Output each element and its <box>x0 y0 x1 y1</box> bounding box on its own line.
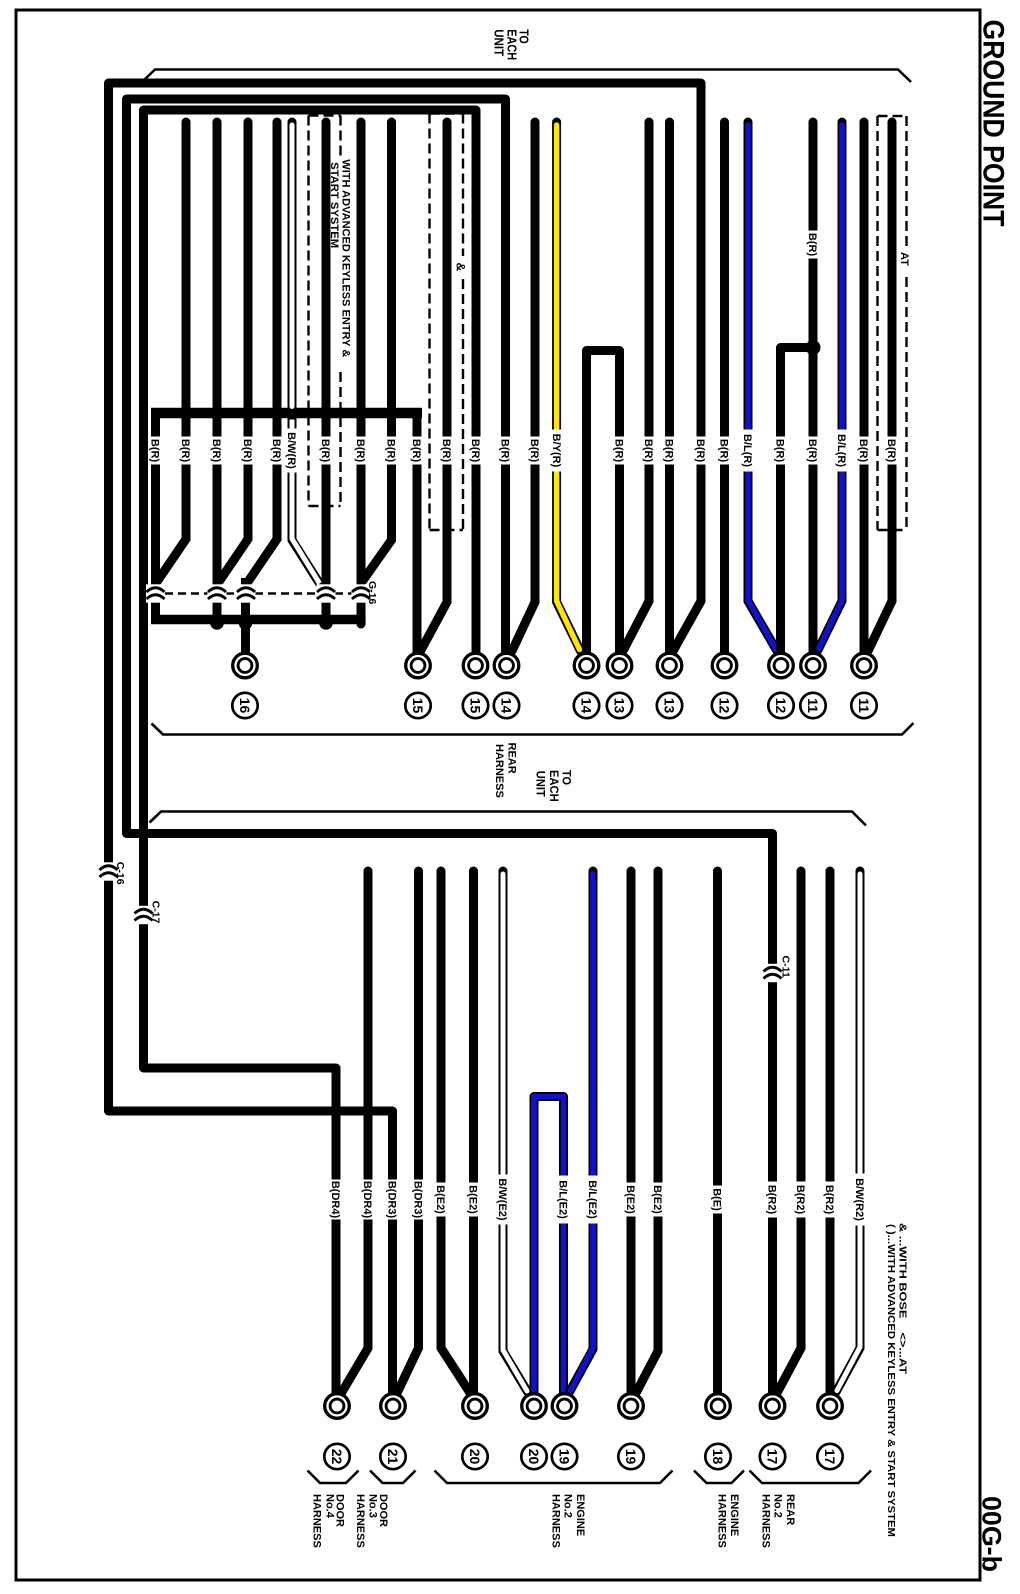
svg-text:B(DR4): B(DR4) <box>361 1181 373 1219</box>
in-line connector C-11 break <box>763 964 782 982</box>
wire B(R2) w801 diag to circle 17a <box>778 871 802 1392</box>
bracket ENGINE HARNESS <box>694 1471 744 1484</box>
svg-text:B(R): B(R) <box>499 439 511 463</box>
ground point circle 16 at x=245 <box>233 653 258 678</box>
wire L1 B(R) loop: circle13b-top-left-down-to-B(DR3) circle 21 <box>109 83 702 1398</box>
connector G-16 break at x=246 <box>237 584 256 602</box>
ground number circle 17 <box>760 1444 785 1469</box>
ground number circle 20 <box>521 1444 546 1469</box>
svg-text:HARNESS: HARNESS <box>549 1494 561 1548</box>
ground number circle 22 <box>324 1444 349 1469</box>
svg-text:B(R): B(R) <box>385 439 397 463</box>
wire B(DR3) w418 diag to circle 21 <box>398 871 419 1392</box>
wire B(R) w813 to circle 11a <box>809 122 818 658</box>
svg-text:B(R): B(R) <box>440 439 452 463</box>
svg-text:B(R): B(R) <box>806 233 818 257</box>
ground point circle 19 at x=564.5 <box>552 1394 577 1419</box>
bracket TO EACH UNIT (section 2 top) <box>150 812 867 826</box>
inline label B(R) on w813 <box>806 231 819 259</box>
svg-text:B(R): B(R) <box>528 439 540 463</box>
label REAR HARNESS <box>493 743 518 798</box>
svg-text:EACH: EACH <box>547 770 559 802</box>
wire B(R) w217 <box>213 122 222 620</box>
svg-text:12: 12 <box>773 698 789 714</box>
wire B(E2) w441 diag to circle 20a <box>441 871 470 1392</box>
wire B(R) w864 to circle 11b <box>860 122 869 658</box>
svg-text:GROUND POINT: GROUND POINT <box>977 20 1010 227</box>
wire B(R) w186 <box>158 122 187 581</box>
label ENGINE No.2 HARNESS <box>549 1494 586 1548</box>
wire B(E2) w658 diag to circle 19b <box>637 871 659 1392</box>
svg-text:13: 13 <box>611 698 627 714</box>
ground number circle 16 <box>232 693 257 718</box>
label DOOR No.4 HARNESS <box>311 1494 346 1548</box>
svg-text:16: 16 <box>237 698 253 714</box>
svg-text:19: 19 <box>556 1449 572 1465</box>
svg-text:20: 20 <box>526 1449 542 1465</box>
connector G-16 break at x=326 <box>317 584 336 602</box>
svg-text:B(R): B(R) <box>774 439 786 463</box>
junction dot w813 branch <box>806 340 821 355</box>
wire B(R) w417 bus1 right corner to circle 15a <box>413 413 422 658</box>
svg-text:B(R): B(R) <box>806 439 818 463</box>
note WITH BOSE / AT <box>897 1223 909 1375</box>
svg-text:HARNESS: HARNESS <box>759 1494 771 1548</box>
wire B/W(R2) white w860 diag to circle 17b <box>836 871 860 1392</box>
ground number circle 12 <box>768 693 793 718</box>
wire labels section 2 <box>329 1174 866 1226</box>
wire B(E2) w631 to circle 19b <box>627 871 636 1398</box>
label AT <box>898 252 910 266</box>
ground number circle 20 <box>462 1444 487 1469</box>
dashed box & <box>430 114 464 531</box>
svg-text:B(E): B(E) <box>711 1188 723 1211</box>
wire B(R) w361 <box>357 122 366 624</box>
dashed box AT <box>878 116 907 530</box>
ground point circle 13 at x=669.5 <box>657 653 682 678</box>
svg-text:B(R): B(R) <box>210 439 222 463</box>
svg-text:WITH ADVANCED KEYLESS ENTRY &: WITH ADVANCED KEYLESS ENTRY & <box>340 159 352 357</box>
wire B/L(E2) blue U-loop circle20b to circle19a <box>534 1097 564 1399</box>
in-line connector G-16 dashed row <box>165 592 352 594</box>
svg-text:ENGINE: ENGINE <box>574 1494 586 1536</box>
ground point circle 21 at x=393 <box>381 1394 406 1419</box>
ground point circle 17 at x=830 <box>818 1394 843 1419</box>
svg-text:& ...WITH BOSE <>...AT: & ...WITH BOSE <>...AT <box>897 1223 909 1375</box>
wire B(R) w535 diag to circle 14a <box>512 122 535 651</box>
bracket REAR HARNESS (section 1 bottom) <box>152 723 914 735</box>
svg-text:B(DR3): B(DR3) <box>412 1181 424 1219</box>
wire L2 B(R) loop: circle14a-top-left-down-bottom-to-B(R2) circle 17 <box>127 99 773 1398</box>
svg-text:B(R): B(R) <box>410 439 422 463</box>
ground number circle 11 <box>851 693 876 718</box>
svg-text:B/L(R): B/L(R) <box>741 434 753 467</box>
svg-text:REAR: REAR <box>505 743 517 774</box>
svg-text:B(R): B(R) <box>149 439 161 463</box>
label C-17 <box>149 901 161 924</box>
svg-text:HARNESS: HARNESS <box>311 1494 323 1548</box>
wire L3 B(R) loop: circle15b-top-left-down-to-B(DR4) circle 22 <box>144 110 477 1398</box>
svg-text:B/W(E2): B/W(E2) <box>496 1178 508 1221</box>
label G-16 <box>366 581 378 605</box>
junction dot bus2-w326 <box>319 616 333 630</box>
ground number circle 18 <box>705 1444 730 1469</box>
svg-text:19: 19 <box>623 1449 639 1465</box>
svg-text:B(E2): B(E2) <box>651 1185 663 1214</box>
ground point circle 20 at x=475 <box>463 1394 488 1419</box>
svg-text:No.2: No.2 <box>772 1494 784 1518</box>
ground point circle 14 at x=586.5 <box>574 653 599 678</box>
svg-text:11: 11 <box>856 698 872 713</box>
svg-text:REAR: REAR <box>784 1494 796 1525</box>
ground number circle 15 <box>463 693 488 718</box>
bracket REAR No.2 HARNESS <box>750 1471 872 1484</box>
svg-text:B(R2): B(R2) <box>823 1185 835 1215</box>
svg-text:ENGINE: ENGINE <box>728 1494 740 1536</box>
wire B(R) w326 (in keyless box) <box>322 122 331 620</box>
wire B/W(E2) white w503 diag to circle 20b <box>503 871 528 1393</box>
wire B(R) w892 (in AT box) diag to circle 11b <box>869 122 893 650</box>
svg-text:B(R): B(R) <box>613 439 625 463</box>
ground number circle 11 <box>800 693 825 718</box>
svg-text:11: 11 <box>805 698 821 713</box>
ground point circle 22 at x=337 <box>325 1394 350 1419</box>
ground number circle 19 <box>552 1444 577 1469</box>
connector G-16 break at x=217 <box>208 584 227 602</box>
svg-text:No.2: No.2 <box>562 1494 574 1518</box>
wire labels section 1 <box>149 429 899 473</box>
svg-text:B(R): B(R) <box>663 439 675 463</box>
svg-text:12: 12 <box>716 698 732 714</box>
svg-text:15: 15 <box>467 698 483 714</box>
ground point circle 17 at x=772.5 <box>760 1394 785 1419</box>
wire B(E2) w473 to circle 20a <box>469 871 478 1398</box>
label ENGINE HARNESS <box>716 1494 740 1548</box>
svg-text:B(E2): B(E2) <box>467 1185 479 1214</box>
ground number circle 17 <box>817 1444 842 1469</box>
ground number circle 21 <box>380 1444 405 1469</box>
wire B(R) w248 <box>220 122 249 581</box>
wire B/L(E2) blue w593 diag to circle 19a <box>570 871 594 1392</box>
svg-text:B/W(R2): B/W(R2) <box>853 1178 865 1221</box>
bus bar 1 (joins top wires) <box>151 408 422 419</box>
wire B(R) w649 diag to circle 13a <box>624 122 650 650</box>
ground point circle 12 at x=781 <box>769 653 794 678</box>
svg-text:B(R): B(R) <box>885 439 897 463</box>
wire B(R) w670 to circle 13b <box>665 122 674 658</box>
ground number circle 13 <box>657 693 682 718</box>
svg-text:B(R2): B(R2) <box>794 1185 806 1215</box>
svg-text:START SYSTEM: START SYSTEM <box>328 162 340 248</box>
svg-text:14: 14 <box>578 698 594 714</box>
svg-text:C-17: C-17 <box>149 901 161 924</box>
svg-text:( )...WITH ADVANCED KEYLESS EN: ( )...WITH ADVANCED KEYLESS ENTRY & STAR… <box>885 1224 897 1537</box>
bracket TO EACH UNIT (section 1 top) <box>142 70 911 83</box>
ground point circle 13 at x=619.5 <box>607 653 632 678</box>
svg-text:B(E2): B(E2) <box>434 1185 446 1214</box>
ground point circle 12 at x=724.5 <box>712 653 737 678</box>
ground point circle 19 at x=631 <box>619 1394 644 1419</box>
wire B(R) w447 (in & box) diag to circle 15a <box>421 122 448 651</box>
wire B/L(R) blue w748 diag to circle 12b <box>748 122 777 651</box>
svg-text:13: 13 <box>661 698 677 714</box>
svg-text:B(DR3): B(DR3) <box>386 1181 398 1219</box>
connector G-16 break at x=361 <box>352 584 371 602</box>
svg-text:&: & <box>454 263 468 272</box>
ground number circle 15 <box>405 693 430 718</box>
svg-text:B(R): B(R) <box>354 439 366 463</box>
note WITH ADVANCED KEYLESS ENTRY & START SYSTEM <box>885 1224 897 1537</box>
bus bar 2 (G-16 collector) <box>151 615 365 625</box>
in-line connector C-17 break <box>134 906 153 924</box>
junction dot bus2-w217 <box>210 616 224 630</box>
wire B(R) w391.5 <box>363 122 392 581</box>
label WITH ADVANCED KEYLESS ENTRY & START SYSTEM <box>328 159 351 357</box>
wire B(R) U-loop circle14b to circle13a <box>587 351 620 659</box>
svg-text:B/L(R): B/L(R) <box>835 434 847 467</box>
label TO EACH UNIT (section 2 lead-in) <box>534 770 572 802</box>
label TO EACH UNIT (section 1) <box>492 29 532 60</box>
label REAR No.2 HARNESS <box>759 1494 796 1548</box>
wire B(R) w277 <box>249 122 278 581</box>
ground point circle 11 at x=864 <box>852 653 877 678</box>
svg-text:B(R): B(R) <box>469 439 481 463</box>
bracket ENGINE No.2 HARNESS <box>435 1471 673 1484</box>
svg-text:AT: AT <box>898 252 910 266</box>
svg-text:B(R): B(R) <box>694 439 706 463</box>
svg-text:B/W(R): B/W(R) <box>285 432 297 469</box>
ground point circle 11 at x=813 <box>801 653 826 678</box>
svg-text:G-16: G-16 <box>366 581 378 605</box>
junction dot bus2-w246 <box>239 616 253 630</box>
svg-text:18: 18 <box>710 1449 726 1465</box>
svg-text:C-16: C-16 <box>114 862 126 885</box>
svg-text:C-11: C-11 <box>780 956 792 978</box>
svg-text:B(R): B(R) <box>241 439 253 463</box>
svg-text:HARNESS: HARNESS <box>716 1494 728 1548</box>
label C-16 <box>114 862 126 885</box>
in-line connector C-16 break <box>99 862 118 880</box>
svg-text:No.4: No.4 <box>323 1494 335 1519</box>
wire B(R2) w830 to circle 17b <box>826 871 835 1398</box>
ground point circle 15 at x=475.5 <box>463 653 488 678</box>
ground number circle 19 <box>618 1444 643 1469</box>
ground point circle 15 at x=418 <box>406 653 431 678</box>
wire B(R) w724 to circle 12a <box>720 122 729 658</box>
svg-text:HARNESS: HARNESS <box>354 1494 366 1548</box>
svg-text:00G-b: 00G-b <box>977 1496 1007 1572</box>
svg-text:B(R): B(R) <box>319 439 331 463</box>
svg-text:B(R): B(R) <box>270 439 282 463</box>
dashed box WITH ADVANCED KEYLESS ENTRY & START SYSTEM <box>309 116 341 507</box>
svg-text:B/L(E2): B/L(E2) <box>586 1180 598 1219</box>
page code 00G-b <box>977 1496 1007 1572</box>
svg-text:B(R): B(R) <box>179 439 191 463</box>
ground point circle 20 at x=534 <box>522 1394 547 1419</box>
ground number circle 14 <box>494 693 519 718</box>
wire B(R) branch w780 to circle 12b <box>781 348 814 659</box>
bracket DOOR No.4 HARNESS <box>308 1471 359 1484</box>
wire B(DR4) w368 diag to circle 22 <box>342 871 368 1392</box>
connector G-16 break at x=155.5 <box>146 584 165 602</box>
svg-text:20: 20 <box>467 1449 483 1465</box>
svg-text:B/Y(R): B/Y(R) <box>550 434 562 468</box>
svg-text:B(DR4): B(DR4) <box>329 1181 341 1219</box>
svg-text:B(E2): B(E2) <box>624 1185 636 1214</box>
ground point circle 18 at x=718 <box>706 1394 731 1419</box>
label DOOR No.3 HARNESS <box>354 1494 389 1548</box>
svg-text:17: 17 <box>822 1449 838 1465</box>
wire B(E) w717 to circle 18 <box>713 871 722 1398</box>
svg-text:UNIT: UNIT <box>534 771 546 797</box>
svg-text:B/L(E2): B/L(E2) <box>557 1180 569 1219</box>
svg-text:B(R): B(R) <box>718 439 730 463</box>
svg-text:14: 14 <box>498 698 514 714</box>
svg-text:22: 22 <box>329 1449 345 1465</box>
wire B/L(R) blue w842 diag to circle 11a <box>818 122 842 650</box>
svg-text:17: 17 <box>764 1449 780 1465</box>
wire B/Y(R) yellow w556 diag to circle 14b <box>557 122 581 651</box>
svg-text:No.3: No.3 <box>367 1494 379 1518</box>
wire stub G-16 to ground circle 16 <box>241 578 250 658</box>
svg-text:B(R): B(R) <box>642 439 654 463</box>
ground number circle 12 <box>712 693 737 718</box>
svg-text:B(R): B(R) <box>857 439 869 463</box>
ground point circle 14 at x=506.5 <box>494 653 519 678</box>
svg-text:TO: TO <box>560 770 572 785</box>
title GROUND POINT <box>977 20 1010 227</box>
wire B(R) bus1 left corner to G-16 <box>151 413 160 624</box>
svg-text:15: 15 <box>410 698 426 714</box>
svg-text:UNIT: UNIT <box>492 29 507 56</box>
wire B/W(R) white w292 <box>292 122 321 585</box>
label C-11 <box>780 956 792 978</box>
ground number circle 14 <box>574 693 599 718</box>
svg-text:21: 21 <box>385 1449 401 1465</box>
svg-text:HARNESS: HARNESS <box>493 744 505 798</box>
label & <box>454 263 468 272</box>
ground number circle 13 <box>607 693 632 718</box>
bracket DOOR No.3 HARNESS <box>370 1471 416 1484</box>
svg-text:B(R2): B(R2) <box>766 1185 778 1215</box>
